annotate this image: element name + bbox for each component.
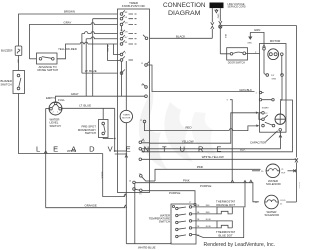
svg-text:WHITE: WHITE (67, 149, 76, 153)
svg-text:T1: T1 (139, 173, 141, 175)
svg-text:RED: RED (186, 125, 192, 129)
svg-text:GRD: GRD (216, 14, 218, 19)
svg-text:MOTOR: MOTOR (270, 39, 281, 43)
svg-text:WH: WH (16, 60, 18, 64)
wire WLS left to vertical (46, 107, 49, 109)
svg-text:15: 15 (141, 63, 143, 65)
svg-text:DIAGRAM: DIAGRAM (168, 10, 201, 17)
svg-text:DOOR SWITCH: DOOR SWITCH (228, 61, 246, 64)
wire timer motor down to white-blue corner (125, 123, 127, 244)
motor left pins (259, 91, 261, 93)
svg-text:CONNECTION: CONNECTION (163, 2, 206, 9)
svg-text:GRN: GRN (272, 79, 277, 81)
wire vertical x86.2 (85, 39, 87, 96)
connector on right edge (295, 158, 298, 162)
svg-text:YELLOW-RED: YELLOW-RED (58, 47, 77, 51)
svg-text:2: 2 (53, 112, 54, 114)
svg-text:EMPTY: EMPTY (46, 96, 56, 100)
svg-text:TIMER: TIMER (123, 115, 130, 117)
svg-text:SWITCH: SWITCH (159, 220, 170, 224)
svg-text:SWITCH: SWITCH (50, 124, 61, 128)
wire vertical x81.9 (81, 34, 83, 74)
svg-text:SOLENOID: SOLENOID (265, 213, 280, 217)
svg-text:MOTOR: MOTOR (122, 118, 131, 120)
svg-text:18: 18 (141, 85, 143, 87)
svg-text:WHITE: WHITE (298, 182, 300, 189)
water solenoid hot L1 (252, 170, 260, 172)
svg-text:BLK: BLK (224, 34, 226, 39)
wire vertical x45.7 WLS to ORANGE corner (45, 108, 47, 207)
svg-text:12: 12 (143, 140, 145, 142)
svg-text:GRAY: GRAY (64, 21, 72, 25)
svg-text:LT. BLUE: LT. BLUE (79, 104, 91, 108)
svg-text:BLACK: BLACK (176, 34, 185, 38)
svg-text:START: START (262, 106, 270, 109)
svg-text:PINK: PINK (183, 179, 190, 183)
door switch S5 (227, 48, 248, 60)
wire left vertical down to WHITE (19, 94, 103, 154)
timer motor M1 (120, 110, 132, 122)
plug line voltage service cord (210, 3, 224, 9)
svg-text:17: 17 (140, 120, 142, 122)
watermark LeadVenture logo (139, 88, 217, 170)
svg-text:FULL: FULL (58, 98, 65, 102)
svg-text:13: 13 (265, 113, 267, 115)
motor main circle (268, 49, 279, 60)
wire motor winding lead down (281, 56, 283, 101)
svg-text:GRD: GRD (247, 43, 252, 45)
svg-text:SOLENOID: SOLENOID (266, 182, 281, 186)
svg-text:SWITCH: SWITCH (1, 82, 12, 86)
wire plug right prong down to junction (219, 8, 222, 25)
svg-text:BLUE DOT: BLUE DOT (219, 233, 233, 237)
svg-text:BLACK: BLACK (106, 45, 109, 52)
timer contact stub labels (125, 12, 128, 55)
timer right side terminals (133, 35, 148, 192)
wire vertical x114.7 (114, 108, 116, 151)
ground arrow GRD under plug (215, 9, 218, 13)
svg-text:COLD: COLD (280, 200, 286, 202)
svg-text:BROWN: BROWN (64, 9, 75, 13)
timer contact right stubs (129, 14, 137, 60)
timer left contacts column (120, 10, 125, 74)
svg-text:WHITE-YELLOW: WHITE-YELLOW (202, 155, 224, 159)
svg-text:KNOB-PUSH OFF: KNOB-PUSH OFF (122, 4, 146, 8)
svg-text:RED: RED (206, 212, 211, 214)
svg-text:SWITCH: SWITCH (85, 131, 96, 135)
svg-text:PURPLE: PURPLE (169, 191, 180, 195)
svg-text:BUZZER: BUZZER (1, 49, 12, 53)
node merge chevron on WHITE at x45.7 (44, 151, 47, 154)
svg-text:GRN: GRN (254, 28, 260, 32)
svg-text:PINK: PINK (197, 165, 204, 169)
svg-text:GRAY: GRAY (71, 92, 79, 96)
wire vertical x92.7 to gray wls wire (92, 19, 94, 97)
svg-text:ORANGE DOT: ORANGE DOT (216, 203, 235, 207)
node junction circle (219, 25, 222, 28)
motor EX terminals (263, 50, 265, 74)
svg-text:BLK: BLK (240, 147, 245, 151)
svg-text:ORANGE: ORANGE (85, 204, 97, 208)
wire plug left prong down (211, 8, 214, 38)
wire motor pin3 down to purple rail (230, 100, 232, 182)
wire right edge white down to cold (295, 162, 297, 202)
svg-text:Rendered by LeadVenture, Inc.: Rendered by LeadVenture, Inc. (204, 242, 276, 248)
svg-text:16: 16 (129, 181, 131, 183)
svg-text:RINSE SWITCH: RINSE SWITCH (38, 68, 59, 72)
svg-text:WHITE-BLUE: WHITE-BLUE (138, 245, 156, 249)
motor entry terminal (263, 44, 266, 48)
svg-text:1: 1 (57, 112, 58, 114)
wire vertical from terminal 16 down to white-blue (134, 184, 136, 244)
wire timer to inner right rail (142, 100, 293, 152)
wire top rail to right edge (222, 26, 297, 158)
capacitor C1 circle (275, 114, 285, 124)
svg-text:PURPLE: PURPLE (200, 184, 211, 188)
wire inside timer to timer motor (108, 44, 127, 111)
svg-text:SERVICE CORD: SERVICE CORD (228, 6, 246, 9)
motor bottom switch contacts (262, 124, 265, 127)
svg-text:CAPACITOR: CAPACITOR (250, 141, 266, 145)
svg-text:T5: T5 (139, 194, 141, 196)
